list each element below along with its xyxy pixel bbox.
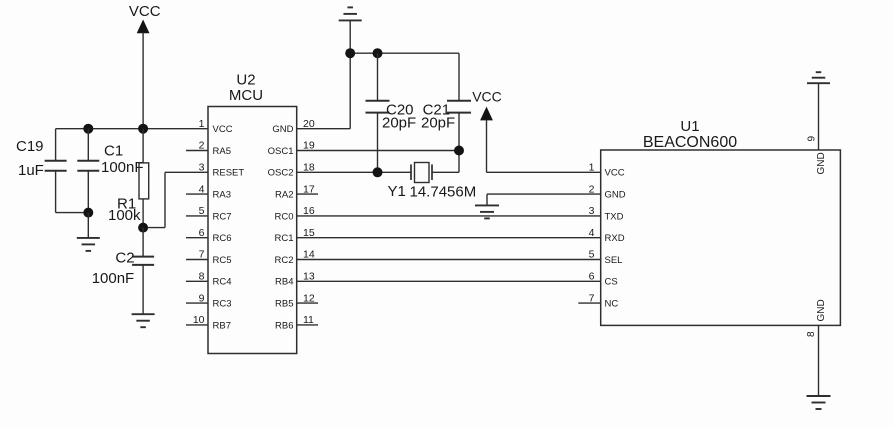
svg-text:RA2: RA2 [275,190,293,201]
U1 pin 9 (GND) [807,83,828,174]
U1 pin 8 (GND) [806,299,827,396]
U2 pin 12 (RB5) [275,292,318,309]
wire [87,213,89,238]
svg-text:SEL: SEL [605,255,623,266]
svg-text:C1: C1 [104,143,123,160]
svg-text:3: 3 [589,205,595,217]
capacitor C20 [366,53,417,172]
wire [297,237,601,239]
U2 pin 18 (OSC2) [268,162,315,179]
wire [143,172,208,227]
junction [83,208,93,218]
crystal Y1 [388,163,477,201]
wire [297,280,601,282]
svg-text:100nF: 100nF [101,159,144,176]
wire [487,120,601,173]
svg-text:VCC: VCC [213,124,233,135]
svg-text:TXD: TXD [605,211,624,222]
wire [297,171,411,173]
svg-text:Y1: Y1 [388,183,406,200]
svg-text:RC3: RC3 [213,299,232,310]
svg-text:RA5: RA5 [213,146,231,157]
junction [373,48,383,58]
svg-text:RC1: RC1 [274,233,293,244]
svg-text:RC0: RC0 [274,211,293,222]
ground [807,72,830,83]
U2 pin 3 (RESET) [199,162,245,179]
U2 pin 8 (RC4) [186,271,232,288]
U2 pin 16 (RC0) [274,205,314,222]
resistor R1 [108,129,149,228]
svg-text:18: 18 [303,162,315,174]
svg-text:RXD: RXD [605,233,625,244]
svg-text:8: 8 [806,331,817,337]
U2 pin 13 (RB4) [275,271,315,288]
wire [487,194,601,205]
svg-text:7: 7 [199,249,205,261]
junction [83,124,93,134]
U2 pin 15 (RC1) [274,227,314,244]
U2 pin 1 (VCC) [199,118,233,135]
svg-text:9: 9 [199,292,205,304]
svg-text:5: 5 [589,249,595,261]
svg-text:GND: GND [605,190,626,201]
svg-text:100k: 100k [108,207,141,224]
U2 pin 5 (RC7) [186,205,232,222]
svg-text:VCC: VCC [129,3,161,20]
svg-text:VCC: VCC [472,89,502,105]
junction [454,146,464,156]
U1 pin 5 (SEL) [589,249,623,266]
svg-text:GND: GND [816,152,827,174]
svg-text:14.7456M: 14.7456M [410,184,477,201]
U2 pin 20 (GND) [272,118,314,135]
wire [349,20,351,128]
svg-text:20pF: 20pF [382,115,416,132]
ground [77,238,100,251]
power flag VCC (left) [129,3,161,34]
wire [142,33,144,129]
svg-text:16: 16 [303,205,315,217]
junction [373,167,383,177]
capacitor C1 [77,129,143,213]
svg-text:8: 8 [199,271,205,283]
svg-text:U1: U1 [680,118,699,135]
svg-text:C2: C2 [115,250,134,267]
junction [345,48,355,58]
svg-text:RC4: RC4 [213,277,232,288]
wire [56,212,89,214]
IC U1 [601,118,841,326]
svg-text:15: 15 [303,227,315,239]
svg-text:RC6: RC6 [213,233,232,244]
svg-text:C19: C19 [16,138,44,155]
svg-text:RC7: RC7 [213,211,232,222]
svg-text:12: 12 [303,292,315,304]
U2 pin 7 (RC5) [186,249,232,266]
svg-text:20: 20 [303,118,315,130]
svg-text:GND: GND [816,299,827,321]
svg-text:19: 19 [303,140,315,152]
wire [297,259,601,261]
svg-text:2: 2 [589,183,595,195]
svg-text:RC2: RC2 [274,255,293,266]
svg-text:CS: CS [605,277,618,288]
ground [807,396,831,409]
svg-text:11: 11 [303,314,314,326]
U1 pin 7 (NC) [578,292,618,309]
ground [339,7,362,20]
U2 pin 2 (RA5) [186,140,231,157]
svg-text:6: 6 [199,227,205,239]
wire [297,150,459,152]
svg-text:RC5: RC5 [213,255,232,266]
svg-text:5: 5 [199,205,205,217]
U1 pin 2 (GND) [589,183,626,200]
U2 pin 6 (RC6) [186,227,232,244]
svg-text:9: 9 [807,136,818,142]
U1 pin 4 (RXD) [589,227,625,244]
svg-text:OSC1: OSC1 [268,146,294,157]
svg-text:RA3: RA3 [213,190,231,201]
svg-text:MCU: MCU [229,87,263,104]
svg-text:RB6: RB6 [275,320,293,331]
U2 pin 4 (RA3) [186,183,231,200]
svg-text:RB5: RB5 [275,299,293,310]
U2 pin 9 (RC3) [186,292,232,309]
svg-text:10: 10 [193,314,205,326]
svg-text:2: 2 [199,140,205,152]
U1 pin 1 (VCC) [589,162,625,179]
svg-text:RESET: RESET [213,168,245,179]
U1 pin 3 (TXD) [589,205,624,222]
power flag VCC (right) [472,89,502,121]
capacitor C19 [16,129,67,213]
svg-text:GND: GND [272,124,293,135]
svg-text:U2: U2 [236,72,255,89]
wire [56,128,208,130]
svg-text:14: 14 [303,249,315,261]
U2 pin 19 (OSC1) [268,140,315,157]
svg-text:6: 6 [589,271,595,283]
capacitor C2 [92,228,154,314]
junction [138,124,148,134]
svg-text:OSC2: OSC2 [268,168,294,179]
U2 pin 11 (RB6) [275,314,318,331]
U2 pin 14 (RC2) [274,249,314,266]
svg-text:RB4: RB4 [275,277,293,288]
svg-text:NC: NC [605,299,619,310]
svg-text:1: 1 [199,118,205,130]
capacitor C21 [421,53,471,172]
ground [475,205,499,218]
svg-text:17: 17 [303,183,315,195]
svg-text:1uF: 1uF [18,162,44,179]
junction [138,223,148,233]
U2 pin 10 (RB7) [186,314,231,331]
svg-text:VCC: VCC [605,168,625,179]
svg-text:RB7: RB7 [213,320,231,331]
IC U2 [208,72,297,354]
U1 pin 6 (CS) [589,271,618,288]
wire [297,215,601,217]
svg-text:13: 13 [303,271,315,283]
svg-text:4: 4 [589,227,595,239]
svg-text:20pF: 20pF [421,115,455,132]
svg-text:7: 7 [589,292,595,304]
svg-text:3: 3 [199,162,205,174]
svg-text:100nF: 100nF [92,270,135,287]
wire [297,128,351,130]
svg-text:4: 4 [199,183,205,195]
svg-text:1: 1 [589,162,595,174]
svg-text:BEACON600: BEACON600 [643,134,737,151]
U2 pin 17 (RA2) [275,183,318,200]
ground [132,314,155,327]
wire [350,52,459,54]
